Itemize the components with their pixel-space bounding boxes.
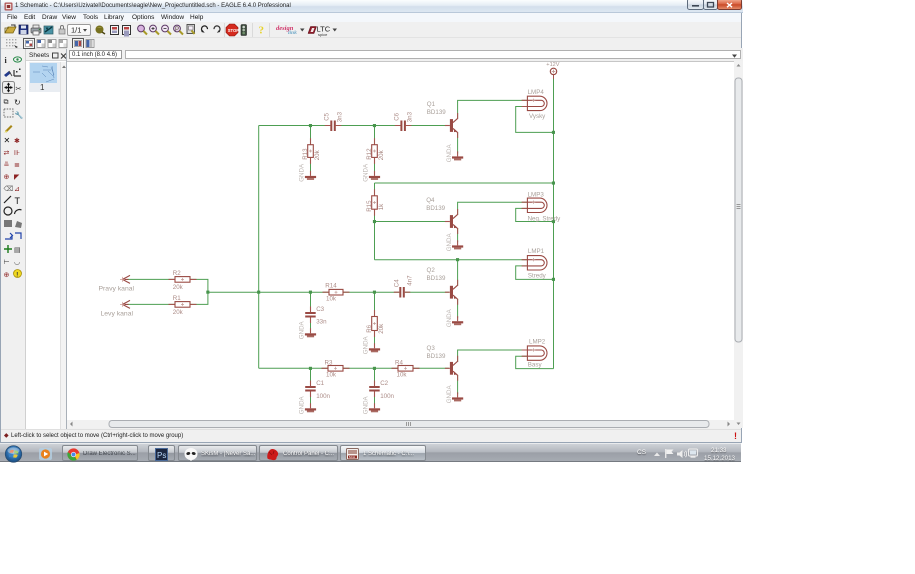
WMP pinned icon — [39, 448, 52, 460]
svg-text:⊪: ⊪ — [14, 150, 20, 157]
svg-text:?: ? — [259, 25, 265, 37]
frame1 — [111, 26, 119, 35]
svg-text:GNDA: GNDA — [446, 385, 453, 404]
svg-text:GNDA: GNDA — [363, 163, 370, 182]
svg-text:3n3: 3n3 — [406, 111, 413, 122]
svg-text:STOP: STOP — [228, 28, 240, 33]
wire — [310, 368, 312, 405]
svg-text:LMP4: LMP4 — [528, 89, 545, 96]
capacitor C3 — [305, 306, 327, 326]
svg-text:LMP1: LMP1 — [528, 248, 545, 255]
svg-text:C4: C4 — [394, 279, 401, 287]
svg-text:Vysky: Vysky — [529, 113, 546, 120]
svg-text:C5: C5 — [323, 112, 330, 120]
svg-text:⊕: ⊕ — [4, 174, 10, 181]
svg-text:R12: R12 — [366, 148, 373, 160]
wire — [516, 356, 554, 368]
input arrow pinhead (Pravy kanal) — [99, 275, 135, 292]
resistor R15 — [366, 189, 385, 215]
sphere — [96, 26, 104, 34]
wire — [258, 126, 260, 369]
combo 1/1 — [68, 25, 91, 36]
ground GNDA (C1) — [299, 395, 316, 414]
ground GNDA (Q3) — [446, 385, 463, 404]
svg-text:R3: R3 — [325, 359, 333, 366]
ground GNDA (Q4) — [446, 233, 463, 252]
wire — [128, 279, 208, 304]
svg-text:Ps: Ps — [157, 451, 166, 460]
svg-text:1k: 1k — [378, 203, 385, 210]
svg-text:BD139: BD139 — [427, 275, 446, 282]
svg-text:⌫: ⌫ — [4, 185, 14, 193]
wire — [458, 202, 528, 215]
svg-text:R4: R4 — [395, 359, 403, 366]
capacitor C5 — [323, 111, 343, 131]
lamp LMP4 — [522, 89, 547, 120]
resistor R12 — [366, 138, 385, 164]
wire — [458, 100, 528, 118]
svg-text:10k: 10k — [397, 371, 408, 378]
capacitor C2 — [369, 380, 394, 400]
wire — [374, 126, 376, 174]
svg-text:✂: ✂ — [16, 86, 22, 93]
resistor R1 — [169, 295, 197, 316]
ground GNDA (Q2) — [446, 308, 463, 327]
svg-text:4n7: 4n7 — [406, 275, 413, 286]
lamp LMP1 — [522, 248, 547, 279]
svg-text:10k: 10k — [326, 371, 337, 378]
svg-text:20k: 20k — [378, 149, 385, 160]
transistor Q4 BD139 — [426, 197, 458, 234]
resistor R4 — [392, 359, 420, 378]
window buttons — [687, 0, 742, 11]
svg-text:20k: 20k — [173, 284, 184, 291]
move tool (selected) — [3, 82, 15, 94]
LTC logo — [308, 27, 317, 34]
svg-text:1/1: 1/1 — [71, 26, 81, 35]
svg-text:P: P — [175, 27, 179, 33]
svg-text:BD139: BD139 — [426, 205, 445, 212]
svg-text:Q4: Q4 — [426, 197, 435, 204]
svg-text:▤: ▤ — [14, 247, 21, 254]
grid icon — [6, 39, 16, 46]
svg-text:i: i — [5, 56, 8, 65]
svg-text:Neg. Stredy: Neg. Stredy — [528, 216, 562, 223]
resistor R3 — [322, 359, 350, 378]
wire +12V rail — [553, 79, 555, 369]
svg-text:GNDA: GNDA — [363, 335, 370, 354]
svg-text:LMP2: LMP2 — [529, 338, 546, 345]
svg-text:⇄: ⇄ — [4, 150, 10, 157]
svg-text:GNDA: GNDA — [299, 163, 306, 182]
svg-text:◤: ◤ — [14, 174, 20, 181]
svg-text:R13: R13 — [302, 148, 309, 160]
svg-text:⊕: ⊕ — [4, 272, 10, 279]
wire — [375, 259, 528, 261]
svg-text:C3: C3 — [316, 306, 324, 313]
capacitor C1 — [305, 380, 330, 400]
wire — [310, 292, 312, 330]
svg-text:Q3: Q3 — [427, 345, 436, 352]
svg-text:20k: 20k — [378, 323, 385, 334]
svg-text:⊿: ⊿ — [14, 186, 20, 193]
magnifier icons — [138, 25, 147, 34]
svg-text:GNDA: GNDA — [299, 395, 306, 414]
open — [5, 27, 16, 33]
wire — [516, 266, 554, 280]
wire — [374, 368, 376, 405]
svg-text:C6: C6 — [393, 112, 400, 120]
svg-text:↻: ↻ — [14, 98, 21, 107]
frame2 — [123, 26, 131, 35]
wire — [457, 228, 459, 242]
system tray — [637, 449, 646, 456]
svg-text:link: link — [288, 30, 297, 36]
resistor R14 — [323, 283, 350, 303]
svg-text:LMP3: LMP3 — [528, 191, 545, 198]
transistor Q1 BD139 — [427, 101, 458, 138]
svg-text:Pravy kanal: Pravy kanal — [99, 286, 135, 293]
svg-text:Levy kanal: Levy kanal — [101, 311, 134, 318]
wire — [375, 221, 449, 223]
svg-text:20k: 20k — [173, 309, 184, 316]
wire — [457, 260, 459, 319]
ground GNDA (R6) — [363, 335, 380, 354]
wire — [259, 125, 449, 127]
svg-text:Q1: Q1 — [427, 101, 436, 108]
Control Panel button — [259, 445, 338, 461]
wire — [516, 107, 554, 133]
svg-text:10k: 10k — [326, 296, 337, 303]
Photoshop button — [148, 445, 175, 461]
svg-text:R2: R2 — [173, 270, 181, 277]
foobar button — [178, 445, 257, 461]
wire — [374, 183, 376, 260]
svg-text:R14: R14 — [325, 283, 337, 290]
capacitor C6 — [393, 111, 413, 131]
wire — [457, 133, 459, 154]
ground GNDA (Q1) — [446, 144, 463, 163]
node junction dots — [206, 124, 555, 370]
svg-text:100n: 100n — [316, 393, 330, 400]
svg-text:BD139: BD139 — [427, 109, 446, 116]
start orb — [4, 445, 23, 463]
svg-text:R6: R6 — [366, 324, 373, 332]
svg-text:✕: ✕ — [4, 136, 11, 145]
svg-text:3n3: 3n3 — [336, 111, 343, 122]
lamp LMP2 — [522, 338, 547, 368]
svg-text:T: T — [15, 196, 21, 206]
svg-text:⊢: ⊢ — [4, 259, 10, 266]
svg-text:GNDA: GNDA — [446, 233, 453, 252]
input arrow pinhead (Levy kanal) — [101, 300, 134, 317]
wire — [374, 292, 376, 345]
svg-text:100n: 100n — [380, 393, 394, 400]
save — [19, 25, 28, 34]
export — [44, 26, 53, 34]
svg-text:GNDA: GNDA — [299, 320, 306, 339]
svg-text:!: ! — [16, 273, 18, 279]
capacitor C4 — [394, 275, 414, 298]
svg-text:GNDA: GNDA — [446, 144, 453, 163]
svg-text:≣: ≣ — [14, 160, 20, 169]
svg-text:◡: ◡ — [14, 259, 20, 266]
Chrome button — [62, 445, 138, 461]
transistor Q3 BD139 — [427, 345, 458, 381]
svg-text:⧉: ⧉ — [4, 99, 9, 106]
svg-text:🔧: 🔧 — [15, 111, 24, 120]
svg-text:SCH: SCH — [349, 455, 355, 459]
EAGLE button (active) — [340, 445, 426, 461]
ground GNDA (R12) — [363, 163, 380, 182]
resistor R6 — [366, 310, 385, 337]
resistor R2 — [169, 270, 197, 291]
svg-text:C2: C2 — [380, 380, 388, 387]
svg-text:+12V: +12V — [546, 62, 559, 68]
svg-text:20k: 20k — [314, 149, 321, 160]
svg-text:spice: spice — [318, 32, 328, 37]
power +12V P1 — [546, 62, 559, 79]
svg-text:GNDA: GNDA — [363, 395, 370, 414]
svg-text:GNDA: GNDA — [446, 308, 453, 327]
wire — [516, 208, 554, 221]
wire — [259, 367, 449, 369]
undo / redo — [202, 26, 208, 32]
svg-text:BD139: BD139 — [427, 353, 446, 360]
layer buttons — [24, 39, 35, 49]
wire — [458, 350, 528, 362]
stop sign — [226, 24, 238, 36]
wire — [208, 291, 449, 293]
svg-text:Basy: Basy — [528, 362, 543, 369]
ground GNDA (C3) — [299, 320, 316, 339]
svg-text:R1: R1 — [173, 295, 181, 302]
svg-text:C1: C1 — [316, 380, 324, 387]
svg-text:Stredy: Stredy — [528, 273, 547, 280]
lamp LMP3 — [522, 191, 562, 222]
ground GNDA (C2) — [363, 395, 380, 414]
svg-text:33n: 33n — [316, 319, 327, 326]
ground GNDA (R13) — [299, 163, 316, 182]
svg-text:R15: R15 — [366, 200, 373, 212]
wire — [375, 182, 554, 184]
resistor R13 — [302, 138, 321, 164]
print — [31, 28, 41, 33]
traffic light — [241, 25, 247, 36]
svg-text:✱: ✱ — [14, 137, 20, 145]
svg-text:≞: ≞ — [4, 161, 10, 169]
wire — [457, 375, 459, 394]
lock — [59, 29, 65, 34]
wire — [310, 126, 312, 174]
transistor Q2 BD139 — [427, 267, 458, 305]
svg-text:Q2: Q2 — [427, 267, 436, 274]
